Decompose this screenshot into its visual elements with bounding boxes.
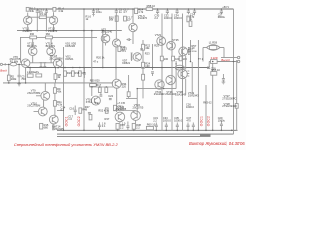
wire left col x20.6 [20,37,22,62]
resistor R13 [52,102,54,104]
inductor L1 input block [27,74,33,77]
svg-text:ООС1: ООС1 [199,116,203,126]
wire x190.5 upper [190,15,192,21]
wire output row [209,61,236,63]
svg-text:R37: R37 [105,117,110,121]
meter ammeter right 0.65mA [175,65,184,70]
svg-text:Сверхлинейный телефонный усили: Сверхлинейный телефонный усилитель УМЗЧ … [14,142,119,147]
svg-text:2SC2705M: 2SC2705M [49,56,62,60]
svg-text:R55 10: R55 10 [212,68,221,72]
svg-text:Вход: Вход [0,69,7,73]
ground C3 arrow [93,15,95,17]
svg-text:2.2: 2.2 [136,125,140,129]
svg-text:2SC2240: 2SC2240 [101,30,112,34]
svg-text:470: 470 [186,119,191,123]
wire driver base bus [137,88,176,90]
svg-text:750: 750 [21,77,26,81]
output terminal lower [237,60,239,62]
capacitor C2 input [18,75,21,80]
wire right rail x233.5 [233,9,235,134]
capacitor C39 [192,123,195,131]
svg-text:+50 V: +50 V [222,5,229,9]
svg-text:0.22R: 0.22R [211,56,218,60]
capacitor C16 [74,106,77,116]
svg-text:R52 4.3k: R52 4.3k [98,109,109,113]
resistor R56 [211,72,217,76]
resistor R9 [53,88,56,94]
svg-text:R18: R18 [75,71,80,75]
capacitor C37 [187,123,190,131]
svg-text:L1 R59: L1 R59 [209,40,218,44]
capacitor C3 [92,9,95,16]
svg-text:R47: R47 [85,105,90,109]
resistor R36 below VT21 [116,123,119,129]
junction dots sub row [91,86,92,87]
transistor VT1 [24,16,32,24]
svg-text:R3 1k: R3 1k [40,12,47,16]
svg-text:1000.0: 1000.0 [174,16,182,20]
svg-text:680: 680 [44,125,49,129]
capacitor C24 [187,9,190,14]
wire long vertical x84 [83,9,85,130]
wire vertical x190.5 [190,40,192,62]
resistor R38 below VT22 [132,123,135,129]
wire left lower stack [44,83,46,92]
junction dots rail2 [37,30,39,32]
svg-text:BF470S: BF470S [27,44,37,48]
wire output upper [221,57,237,59]
svg-text:2SC2705: 2SC2705 [133,106,144,110]
diode VD4 [43,63,46,67]
svg-text:0.1: 0.1 [122,49,126,53]
svg-text:4.7: 4.7 [127,18,131,22]
svg-text:BF470S: BF470S [46,44,56,48]
svg-text:1000.0: 1000.0 [174,119,182,123]
wire vt22 drop [135,120,137,123]
wire vt14 emitter [53,124,55,130]
resistor R8 input block [36,74,42,77]
svg-text:KD521B: KD521B [65,44,75,48]
resistor bank row b1 [64,71,67,76]
svg-text:2SC5200: 2SC5200 [188,51,198,53]
transistor VT27 [179,47,190,56]
input terminal [0,63,2,65]
resistor R49 [89,115,92,120]
transistor VT2 [28,47,37,56]
wire x30 input drop [29,68,31,75]
transistor VT16 [91,96,100,105]
svg-text:130: 130 [145,64,150,68]
resistor sub R30 [90,84,97,87]
svg-text:ООС2: ООС2 [77,116,81,126]
svg-text:2SC2705M: 2SC2705M [27,104,40,108]
svg-text:1.0: 1.0 [122,121,126,125]
svg-text:2.2: 2.2 [153,119,157,123]
svg-text:43k: 43k [57,89,62,93]
resistor R19 [118,46,121,51]
resistor R48 [79,108,82,113]
capacitor C29 zobel low [222,74,225,82]
svg-text:6800u: 6800u [218,15,226,19]
wire sub-circuit row [90,86,114,88]
wire output col x176.1 [175,61,177,89]
wire vertical x133 mid [132,32,134,44]
wire R9 chain mid [54,93,56,100]
wire VT9 base stub [36,95,41,97]
svg-text:2SA970: 2SA970 [138,16,148,20]
resistor R26 [142,74,145,80]
svg-text:1500u: 1500u [218,119,226,123]
svg-text:ООС1: ООС1 [64,116,68,126]
wire long vertical x63.5 [63,47,65,130]
transistor VT24 [155,80,164,89]
svg-text:43k: 43k [145,46,150,50]
svg-text:220: 220 [122,85,127,89]
resistor R58 [146,8,152,11]
input arrow [3,64,6,66]
svg-text:L1 40мкГн: L1 40мкГн [27,70,40,74]
resistor R34 [114,105,117,110]
svg-text:VT23: VT23 [155,33,162,37]
capacitor C25 mid-bottom [126,122,129,131]
resistor R2 [26,7,29,11]
wire output col x185.7b [185,79,187,95]
svg-text:4.7k: 4.7k [138,10,144,14]
wire VT6 down [25,68,27,83]
wire bottom mid rail left [57,110,64,112]
wire vertical x212.7 [212,63,214,130]
svg-text:KD521: KD521 [122,61,130,65]
transistor VT13 [112,79,121,88]
capacitor C1.2 [45,9,48,14]
svg-text:ГТ 1: ГТ 1 [198,57,204,61]
wire vertical x162 [161,14,163,131]
capacitor C33 [165,123,168,131]
transistor VT23 [157,37,166,46]
svg-text:2SA1943: 2SA1943 [175,92,186,96]
svg-text:Виктор Жуковский, 04.30'06: Виктор Жуковский, 04.30'06 [189,141,245,146]
svg-text:1.0: 1.0 [68,117,72,121]
transistor VT17 vbe multiplier [131,53,142,61]
svg-text:1000.0: 1000.0 [163,119,171,123]
wire C1.1 drop [36,14,38,31]
wire vertical x102.8 [102,31,104,68]
capacitor C27 [220,9,223,14]
svg-text:C7: C7 [82,71,86,75]
wire right rail x236.7 [236,60,238,130]
capacitor C30 [156,9,159,14]
svg-text:C22: C22 [108,94,113,98]
wire VT10 base stub [34,111,39,113]
resistor R4 [53,7,56,11]
wire ground bus upper [57,133,234,135]
resistor R15 below VT10 [40,123,43,129]
wire VT5 collector stub [105,31,107,35]
wire lower-left rail [3,82,113,84]
inductor L1 input [10,62,17,65]
wire vertical x116 low [116,88,118,112]
svg-text:100u: 100u [96,10,102,14]
svg-text:C16: C16 [69,107,74,111]
svg-text:R1 68k: R1 68k [10,59,19,63]
capacitor C14 pair [127,38,132,41]
resistor R12 [54,74,57,80]
resistor R14 [135,8,138,13]
wire R11 chain bottom [54,106,56,115]
wire vt21 base row [114,110,136,112]
wire x143 extension [142,80,144,98]
wire vertical x198.4 [197,40,199,130]
resistor R60 [146,126,153,129]
resistor R5 [30,36,37,39]
capacitor C5 [115,9,118,14]
transistor VT5 [101,34,110,43]
svg-text:1000.0: 1000.0 [186,105,194,109]
svg-text:2SA1943: 2SA1943 [154,92,165,96]
junction dot x176.1 [175,63,176,64]
wire x209.2 down [208,62,210,68]
svg-text:R20 1k: R20 1k [96,56,105,60]
svg-text:100: 100 [175,57,180,61]
svg-text:R25: R25 [154,43,159,47]
wire bias chain riser [128,75,130,92]
transistor VT10 [38,107,47,116]
svg-text:43k: 43k [30,9,35,13]
diode VD3 [40,63,43,67]
transistor VT3 [49,16,57,24]
capacitor C41 right bottom [220,121,223,131]
transistor VT7 [53,59,62,68]
wire mid rail [26,67,210,69]
wire second pair emitters [32,56,34,63]
capacitor C1.7 top [124,16,127,21]
transistor VT28 [178,69,189,78]
resistor R6 [46,36,53,39]
wire vertical x172 [171,14,173,131]
svg-text:+7.0 B: +7.0 B [117,101,125,105]
wire vertical x206 [205,85,207,130]
transistor VT11 [129,23,137,31]
transistor VT9 [41,91,50,100]
svg-text:4.7: 4.7 [123,10,127,14]
resistor R52 [105,108,108,113]
wire vt21 drop [119,122,121,124]
wire x19.1 drop [18,64,20,75]
svg-text:2SC945: 2SC945 [54,127,64,131]
resistor R3 [39,16,46,19]
capacitor C35 [176,123,179,131]
capacitor C1.1 [36,9,39,14]
wire vertical x152.5 [152,44,154,70]
capacitor sub C22 [109,98,112,99]
wire vertical VT2 top [53,12,55,16]
capacitor C1.9 [98,122,101,130]
svg-text:0.1: 0.1 [102,124,106,128]
transistor VT21 [115,112,125,122]
svg-text:KT61: KT61 [86,100,93,104]
capacitor C20 pair [100,93,103,97]
svg-text:R30 820: R30 820 [90,79,100,83]
transistor VT6 [21,59,30,68]
resistor R39 [127,92,130,97]
ground zobel [222,82,226,84]
wire x51.1 down [50,37,52,47]
resistor R61 right top [187,17,190,22]
capacitor C31 [155,123,158,131]
resistor R57b [189,21,192,26]
wire +50V top rail [26,8,234,10]
svg-text:R58 10: R58 10 [147,4,156,8]
wire vertical x116 [115,47,117,79]
svg-text:100k: 100k [11,77,17,81]
wire second rail [17,30,122,32]
wire R3 row [28,16,54,18]
wire L1 node right [220,47,224,49]
svg-text:R23: R23 [145,52,150,56]
resistor R22 [142,44,145,50]
resistor R10 [115,16,118,21]
svg-text:R63 62: R63 62 [203,101,212,105]
capacitor C26 [193,9,196,14]
junction dots mid rail [8,64,10,66]
resistor R7 [7,75,10,81]
capacitor C28 zobel [207,67,210,68]
resistor sub R31 [98,87,101,92]
resistor bank row b3 [78,71,81,76]
transistor VT22 [131,111,141,121]
resistor R24 [142,62,145,68]
svg-text:2TS4/1943D: 2TS4/1943D [222,104,237,108]
wire x8.8 drop [8,64,10,75]
svg-text:1000.0: 1000.0 [164,16,172,20]
svg-text:4.3k: 4.3k [58,9,64,13]
svg-text:2SC2705M: 2SC2705M [27,91,40,95]
wire lower rail [57,129,238,131]
wire vertical x182.5 [182,14,184,131]
svg-text:2.2: 2.2 [120,125,124,129]
svg-text:100: 100 [183,57,188,61]
svg-text:100: 100 [164,57,169,61]
svg-text:3.9: 3.9 [95,101,99,105]
wire ground bus lower [57,135,211,137]
wire output col x192.2 [191,62,193,95]
wire L1 node left [203,47,207,49]
resistor sub R32 [105,87,108,92]
resistor R11 [53,101,56,107]
inductor L2 output [207,45,221,51]
svg-text:Выход: Выход [221,58,230,62]
wire vertical x133 top [132,9,134,23]
junction driver bus dots [137,88,138,89]
capacitor C17 [151,72,154,76]
wire VT5 emitter stub [105,43,107,46]
svg-text:R60 10: R60 10 [147,123,156,127]
wire VT2 emitter down [53,24,55,30]
capacitor bank row b4 [83,68,86,79]
wire vt22 base feed [126,97,137,99]
fuse FU1 [235,104,238,109]
wire x32.7 down [32,37,34,47]
wire ground bus end block [200,134,211,136]
capacitor C18 [88,112,91,113]
wire output col x185.7 [185,56,187,69]
capacitor C32 [166,9,169,14]
svg-text:0.65A: 0.65A [176,67,182,70]
svg-text:2SA970: 2SA970 [48,29,58,33]
ground input [17,84,21,86]
ground VT14 emitter [52,127,56,129]
wire VT1 emitter down [27,25,29,31]
svg-text:2.2: 2.2 [154,16,158,20]
output terminal upper [237,56,239,58]
wire C5 to VT8 [115,14,117,39]
transistor VT25 [167,41,176,50]
wire vertical x91.8 [91,31,93,96]
wire base row pair3 [30,62,54,64]
capacitor C15 pair [141,48,142,51]
resistor R55 output 0.22 [211,60,218,64]
svg-text:2SA970: 2SA970 [23,29,33,33]
transistor VT4 [47,47,56,56]
svg-text:R16: R16 [67,71,72,75]
transistor VT14 [49,115,58,124]
wire x54 drop [54,68,56,74]
wire input line [6,63,23,65]
svg-text:VT25: VT25 [172,38,179,42]
wire third sub-rail [20,36,97,38]
wire C1.2 drop [45,14,47,31]
svg-text:56k: 56k [109,18,114,22]
svg-text:ООС2: ООС2 [206,116,210,126]
wire VT7 down [57,66,59,69]
junction dots bottom rail [63,130,65,132]
resistor R43 [172,56,175,61]
wire vertical VT1 top [27,13,29,17]
svg-text:KD521: KD521 [66,57,74,61]
svg-text:47 u: 47 u [93,59,99,63]
svg-text:2TS5200PC: 2TS5200PC [222,96,236,100]
transistor VT26 [166,75,175,84]
capacitor C34 [176,9,179,14]
svg-text:2SA1943: 2SA1943 [188,93,199,97]
junction dots top rail [37,8,39,10]
resistor R41 [160,56,163,61]
wire VT22 collector riser [136,89,138,113]
transistor VT8 [113,39,121,47]
wire bias chain lower [128,97,130,99]
resistor R45 [179,56,182,61]
svg-text:0.1: 0.1 [61,108,65,112]
resistor bank row b2 [71,71,74,76]
wire R9 chain top [54,83,56,88]
wire vertical x143 [142,40,144,75]
